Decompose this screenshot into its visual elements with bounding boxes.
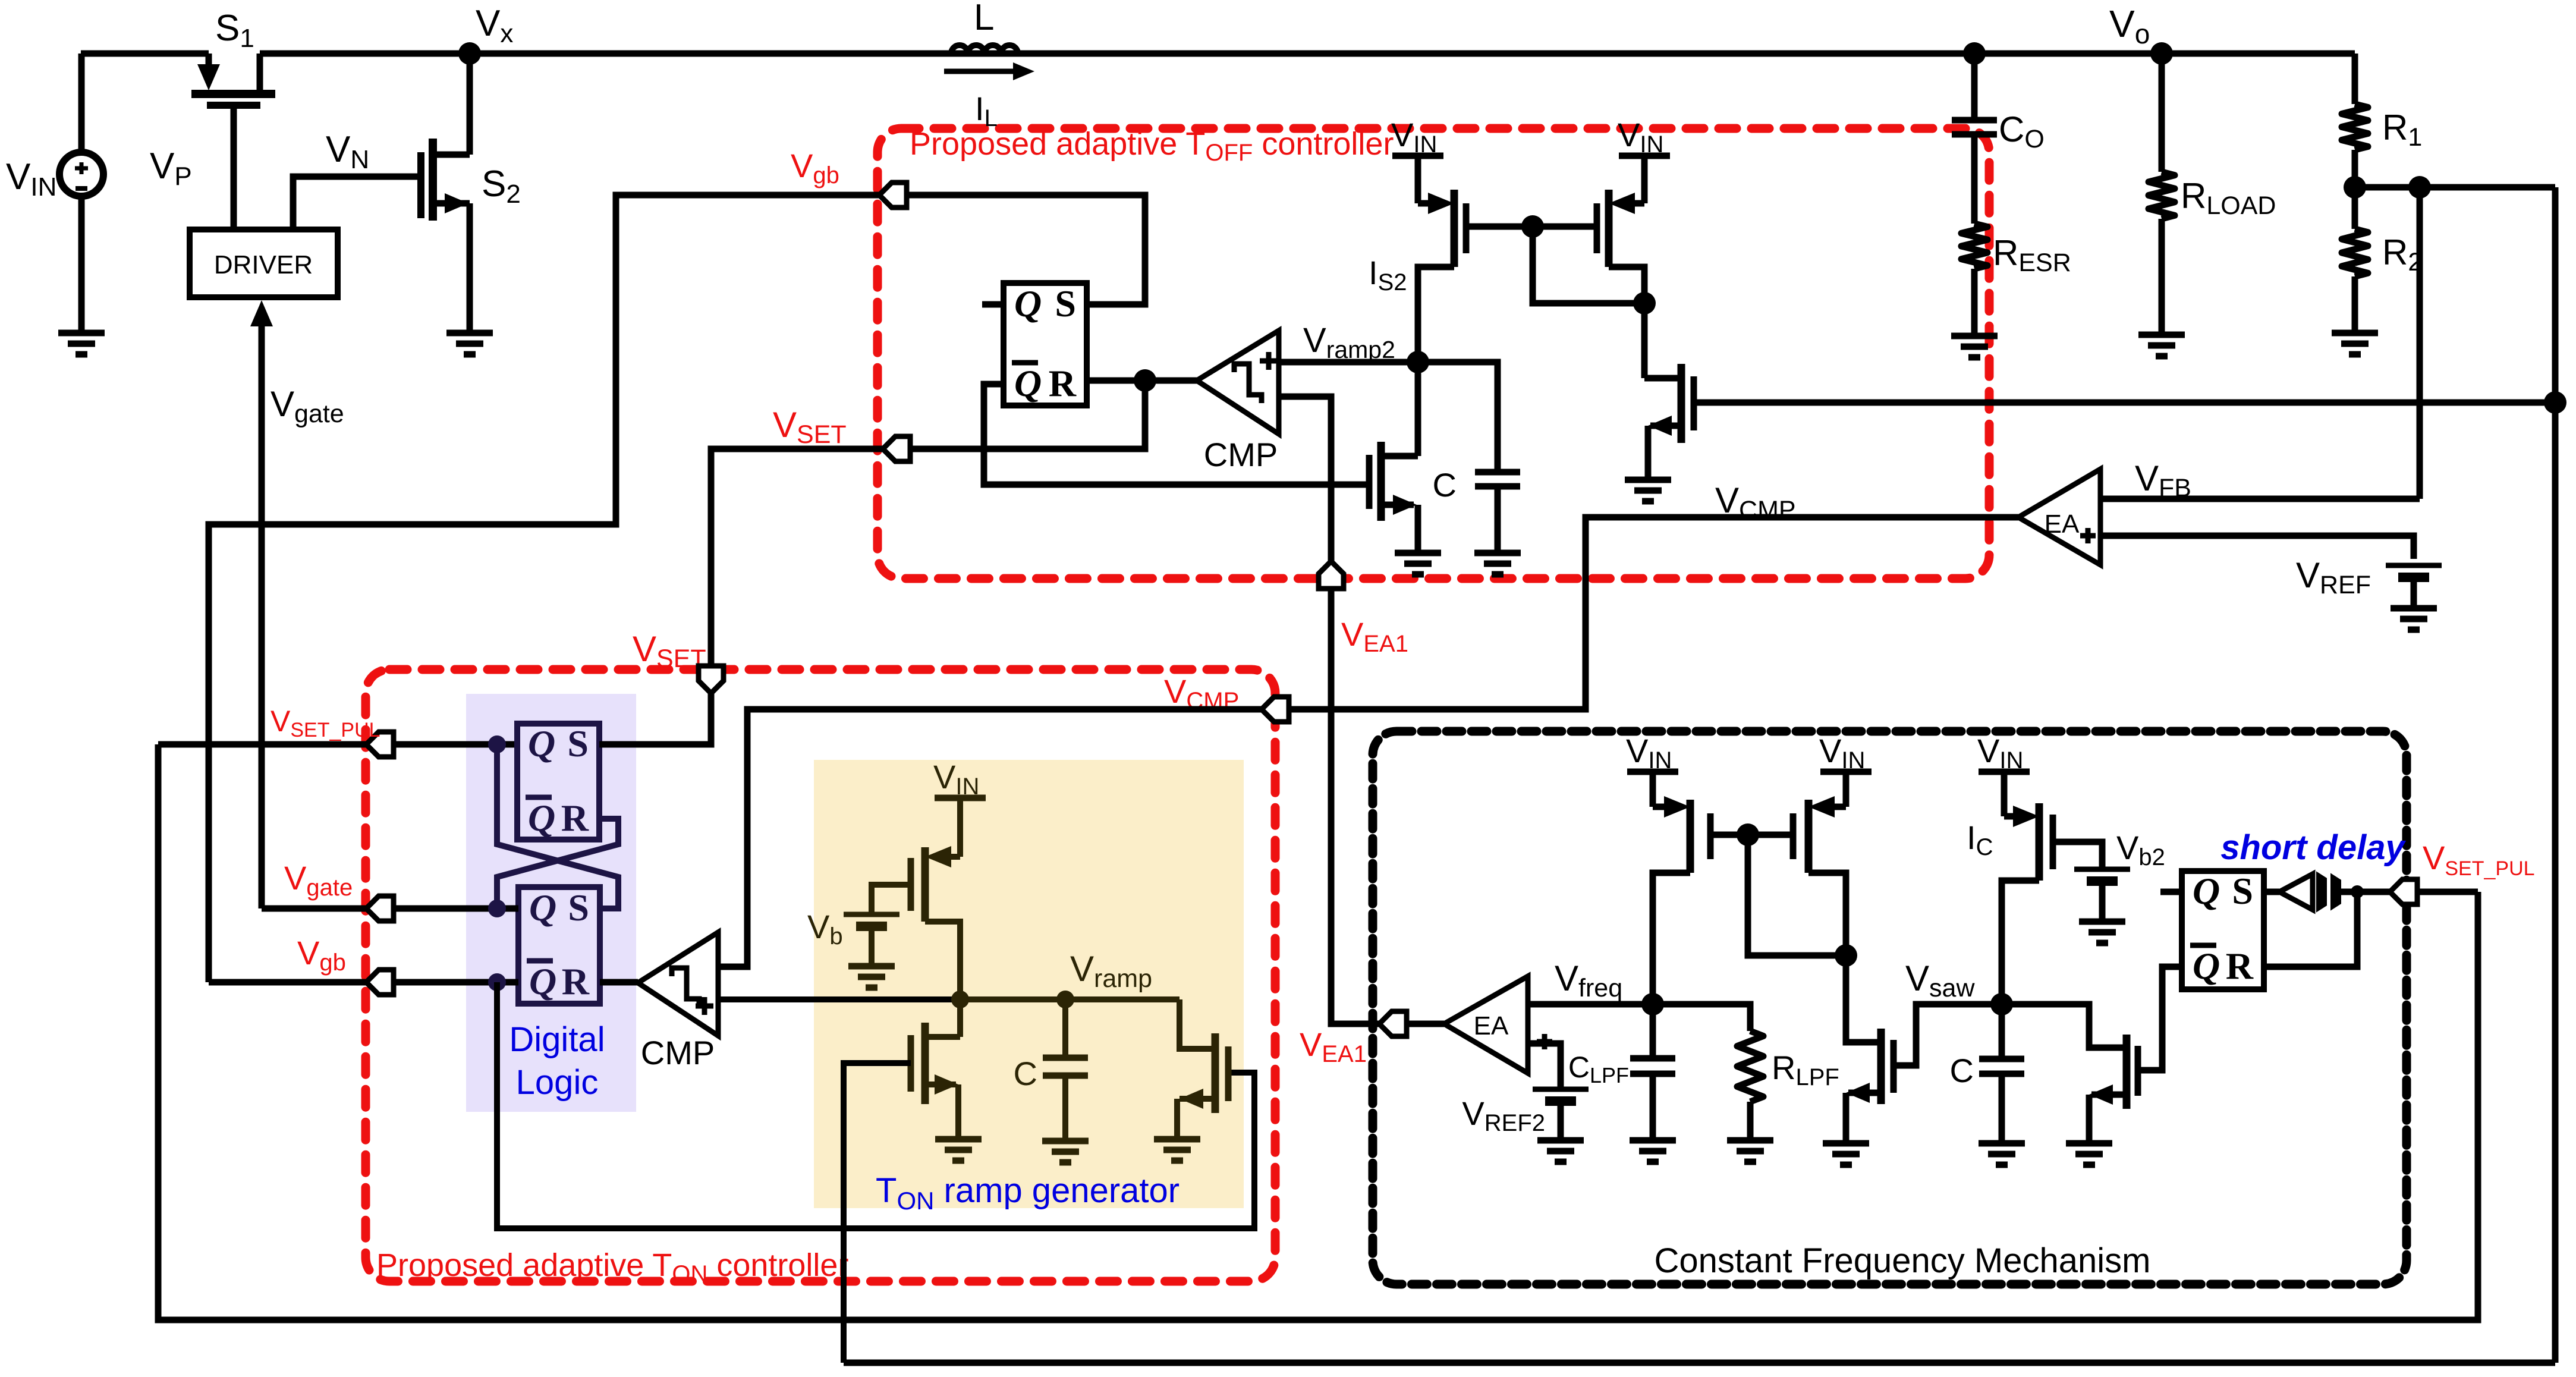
label S2 <box>482 164 521 209</box>
supply VIN bar CFM1 <box>1626 732 1678 774</box>
wire: Vfreq to RLPF <box>1653 1004 1750 1031</box>
label Co <box>1999 109 2045 153</box>
wire: M5 drain to Vramp2 <box>1415 362 1421 456</box>
wire: VSET to R node <box>909 381 1145 449</box>
label VSET red TON <box>633 629 706 673</box>
wire: S2 drain to Vx <box>467 54 473 155</box>
wire: feedback bottom wire <box>844 1360 2555 1366</box>
wire: Vsaw to cap C CFM <box>1999 1004 2005 1059</box>
wire VCMP: EA out to TON <box>1289 517 2018 709</box>
label: Constant Frequency Mechanism <box>1655 1241 2151 1280</box>
svg-text:Q: Q <box>528 722 555 765</box>
label VREF <box>2296 555 2371 599</box>
wire: CMP upper in to VCMP <box>718 709 1262 967</box>
wire: cap C to ground <box>1495 486 1501 553</box>
ground below M5 <box>1395 553 1441 574</box>
voltage source VIN circle <box>59 152 103 196</box>
ground below M6 <box>1625 480 1671 501</box>
node Qbar2 dot <box>488 973 506 991</box>
label VREF2 <box>1462 1095 1545 1136</box>
label VFB <box>2135 458 2191 502</box>
wire: N1 gate to bottom <box>844 1063 911 1363</box>
comparator CMP TOFF <box>1197 331 1279 434</box>
label VEA1 red CFM <box>1300 1026 1367 1067</box>
node Q2 dot <box>488 900 506 917</box>
capacitor C TOFF <box>1475 472 1520 486</box>
wire: VSET to TON box <box>711 449 883 667</box>
port Vgb TON <box>366 970 394 995</box>
wire: M5 source to ground <box>1415 505 1421 553</box>
transistor S2 NMOS <box>421 139 470 221</box>
label Vgate red <box>284 859 353 901</box>
label IC <box>1967 819 1993 860</box>
node Vx dot <box>458 42 481 65</box>
ground below RLOAD <box>2138 335 2185 356</box>
wire: Vgb routing to TOFF <box>209 195 879 982</box>
label Digital Logic <box>509 1020 605 1102</box>
wire VN: driver to S2 gate <box>293 177 421 229</box>
label IL <box>975 90 998 131</box>
wire VFB input <box>2100 496 2420 502</box>
node Vramp2 dot <box>1407 351 1429 373</box>
ground below N1 <box>935 1139 982 1161</box>
port VSET_PUL CFM <box>2390 879 2417 904</box>
svg-text:S: S <box>567 722 589 765</box>
wire: inductor to Vo rail <box>1018 51 2355 57</box>
port VSET_PUL TON <box>366 732 394 757</box>
supply VIN bar CFM2 <box>1819 732 1872 774</box>
transistor M6 NMOS TOFF out <box>1644 364 1694 443</box>
wire: RLOAD to ground <box>2159 219 2165 335</box>
wire: right mirror drain down <box>1641 303 1648 378</box>
label R2 <box>2382 232 2422 276</box>
wire: Vo rail corner down to R1 <box>2352 54 2358 104</box>
ground below Vb <box>848 966 895 988</box>
svg-text:R: R <box>2226 945 2254 987</box>
cross couple Q1 to S2 <box>497 744 618 908</box>
node CFM right drain dot <box>1835 944 1857 967</box>
node Vramp dot2 <box>1056 991 1074 1008</box>
label: Proposed adaptive TON controller <box>376 1247 848 1287</box>
svg-text:Q: Q <box>1014 282 1042 325</box>
ground below Vb2 <box>2079 922 2125 943</box>
wire: Vgb port to Qbar2 <box>394 979 518 986</box>
svg-text:R: R <box>1049 362 1077 404</box>
wire: S2 source to ground <box>467 203 473 333</box>
wire: EA2 Vfreq input <box>1528 1001 1653 1008</box>
ground below N2 <box>1154 1139 1200 1161</box>
svg-text:EA: EA <box>2045 510 2080 539</box>
wire: VFB tap down to EA <box>2417 187 2423 499</box>
ground below S2 <box>446 333 493 354</box>
wire: Vfreq to CLPF <box>1650 1004 1656 1058</box>
label Vfreq <box>1555 958 1622 1002</box>
wire: N3 source to ground <box>1843 1093 1850 1143</box>
node Vo dot <box>2150 42 2173 65</box>
ground below CLPF <box>1630 1140 1676 1162</box>
ground below VREF <box>2391 608 2437 630</box>
port VSET TON (down) <box>699 666 724 693</box>
wire: CFM mirror gates <box>1710 832 1793 838</box>
label RLPF <box>1772 1049 1839 1090</box>
wire: S1 drain to Vx to inductor <box>260 51 951 57</box>
wire: CFM diode connect <box>1748 835 1846 955</box>
label VEA1 red TOFF <box>1341 615 1408 657</box>
node mirror gate dot <box>1521 215 1544 238</box>
stub latch1 S input <box>599 741 711 748</box>
wire: Vramp2 to cap C <box>1418 362 1498 472</box>
label Vo <box>2109 2 2150 49</box>
red dashed box: Proposed adaptive TON controller <box>366 669 1275 1281</box>
transistor PMOS IS2 right <box>1597 156 1644 303</box>
svg-text:Q: Q <box>2193 945 2220 987</box>
node Q1 dot <box>488 735 506 753</box>
svg-text:DRIVER: DRIVER <box>214 250 313 279</box>
battery VREF <box>2386 565 2442 577</box>
supply VIN bar left (TOFF mirror) <box>1391 116 1443 158</box>
label Vramp2 <box>1303 321 1395 363</box>
red dashed box: Proposed adaptive TOFF controller <box>877 128 1989 579</box>
label VSET_PUL red right <box>2423 839 2535 880</box>
node VFB tap dot <box>2408 176 2431 199</box>
stub latch3 Q <box>2160 889 2182 895</box>
port VEA1 TOFF (up) <box>1319 561 1344 589</box>
wire: Vgb rail to port <box>209 979 366 986</box>
TON ramp generator highlight box <box>814 760 1244 1208</box>
error amp EA <box>2018 469 2100 565</box>
svg-text:Q: Q <box>1014 362 1042 404</box>
transistor P3 PMOS CFM <box>1653 772 1710 1004</box>
error amp EA2 CFM <box>1444 976 1552 1073</box>
wire: Co to RESR <box>1971 134 1978 224</box>
wire: P5 gate to Vb2 <box>2053 842 2102 867</box>
capacitor C CFM <box>1979 1059 2024 1074</box>
label RESR <box>1993 233 2071 277</box>
wire: Vgb port to latch S <box>907 195 1145 304</box>
wire: TOFF latch R row <box>1087 378 1197 384</box>
label Vsaw <box>1905 958 1975 1002</box>
ground below VREF2 <box>1537 1140 1584 1162</box>
port Vgb TOFF <box>879 183 907 208</box>
svg-text:S: S <box>568 886 589 929</box>
battery Vb <box>844 914 899 926</box>
wire: CMP+ to Vramp <box>718 996 960 1002</box>
wire: N4 source to ground <box>2086 1095 2093 1143</box>
port Vgate TON <box>366 896 394 921</box>
wire: P2 gate to Vb <box>872 885 911 913</box>
SR latch TOFF <box>1004 282 1087 405</box>
wire: Vsaw to N4 drain <box>2002 1004 2127 1048</box>
label VSET red <box>773 405 847 449</box>
node CFM mirror gate dot <box>1737 823 1759 846</box>
label short delay <box>2220 828 2406 867</box>
node delay feedback dot <box>2351 885 2364 898</box>
label IS2 <box>1369 254 1407 295</box>
svg-text:C: C <box>1014 1055 1037 1092</box>
wire: CMP+ input Vramp2 <box>1279 359 1418 366</box>
svg-text:Q: Q <box>529 960 556 1002</box>
label CMP TON <box>641 1034 715 1071</box>
transistor N1 NMOS TON <box>911 1023 960 1104</box>
wire: R1R2 to R2 <box>2352 187 2358 229</box>
node dot M6 gate right <box>2544 391 2566 414</box>
wire: Vgate port to Q2 <box>394 906 518 912</box>
port VEA1 CFM <box>1379 1011 1407 1036</box>
svg-text:Proposed adaptive TOFF contro: Proposed adaptive TOFF controller <box>910 126 1394 166</box>
SR latch3 CFM <box>2182 870 2264 989</box>
cross couple R1 to Q2 <box>497 819 618 908</box>
wire: C TON to ground <box>1062 1076 1068 1141</box>
wire: N3 gate to Vsaw <box>1894 1004 2002 1065</box>
wire: EA2 + input to VREF2 <box>1528 1043 1561 1087</box>
wire: VIN bottom to ground <box>78 196 85 333</box>
wire: right rail down <box>2552 187 2559 1363</box>
ground below R2 <box>2332 333 2378 354</box>
SR latch1 digital logic <box>517 722 599 840</box>
label R1 <box>2382 108 2422 152</box>
label: Proposed adaptive TOFF controller <box>910 126 1394 166</box>
wire VREF battery to ground <box>2411 577 2417 608</box>
capacitor CLPF <box>1630 1058 1675 1074</box>
label Vgb red TOFF <box>791 147 839 188</box>
inductor L <box>951 45 1018 54</box>
svg-text:Digital: Digital <box>509 1020 605 1059</box>
wire VREF input <box>2100 536 2414 559</box>
ground below C TON <box>1042 1141 1089 1162</box>
wire: diode connect <box>1533 227 1644 303</box>
ground below N3 <box>1823 1143 1869 1165</box>
SR latch2 digital logic <box>518 886 600 1004</box>
wire: N4 gate to latch3 Qbar <box>2138 967 2182 1070</box>
wire: P4 drain to N3 <box>1846 955 1881 1042</box>
svg-text:Proposed adaptive TON controll: Proposed adaptive TON controller <box>376 1247 848 1287</box>
svg-text:Logic: Logic <box>516 1063 599 1102</box>
node dot above Co <box>1963 42 1986 65</box>
label RLOAD <box>2181 176 2276 220</box>
ground below cap C <box>1474 553 1521 574</box>
resistor RLOAD <box>2149 172 2175 219</box>
ground below N4 <box>2066 1143 2112 1165</box>
transistor N3 NMOS CFM <box>1846 1029 1894 1104</box>
wire: M6 source to ground <box>1645 426 1652 480</box>
label C TON <box>1014 1055 1037 1092</box>
wire: Vramp to N2 drain <box>1180 999 1215 1049</box>
wire: CMP- input to VEA1 <box>1279 397 1331 561</box>
wire: VEA1 port to EA2 <box>1407 1021 1444 1027</box>
svg-text:EA: EA <box>1474 1011 1509 1040</box>
label C TOFF <box>1433 466 1457 504</box>
supply VIN bar CFM3 <box>1977 732 2030 774</box>
label VSET_PUL red left <box>271 705 380 741</box>
wire: Vo to RLOAD <box>2159 54 2165 172</box>
wire: VIN top to rail <box>78 54 85 153</box>
svg-text:short delay: short delay <box>2220 828 2406 867</box>
wire: divider node to right rail <box>2355 184 2555 191</box>
wire: CLPF to ground <box>1650 1074 1656 1140</box>
wire: VREF2 to ground <box>1558 1101 1564 1140</box>
wire: N1 source to ground <box>955 1084 961 1139</box>
node Vsaw dot <box>1990 993 2013 1016</box>
label CLPF <box>1568 1051 1629 1087</box>
transistor PMOS IS2 left <box>1418 156 1466 362</box>
svg-text:CMP: CMP <box>641 1034 715 1071</box>
wire Vgate with arrow into driver <box>250 300 273 908</box>
transistor N4 NMOS CFM <box>2089 1035 2138 1109</box>
stub Q TOFF latch <box>982 301 1004 308</box>
label VCMP black <box>1715 480 1796 524</box>
arrow IL inductor current <box>944 62 1034 80</box>
comparator CMP TON <box>638 932 718 1036</box>
wire: latch3 R feedback <box>2264 892 2357 967</box>
node dot on R line <box>1134 369 1156 392</box>
wire: Vb2 to ground <box>2099 881 2106 922</box>
svg-text:C: C <box>1950 1052 1974 1089</box>
wire: VEA1 down to CFM <box>1331 589 1379 1024</box>
resistor R2 <box>2342 229 2368 276</box>
transistor P5 PMOS IC <box>2002 772 2053 1004</box>
wire: VSET_PUL port to corner <box>2417 889 2478 895</box>
svg-text:S: S <box>1055 282 1076 325</box>
wire: RESR to ground <box>1971 269 1978 336</box>
svg-text:R: R <box>561 797 589 839</box>
supply VIN bar TON <box>933 758 986 800</box>
svg-text:R: R <box>562 960 590 1002</box>
wire: N1 drain up <box>957 999 963 1037</box>
wire: VSET_PUL left rail to port <box>158 741 366 748</box>
node Vfreq dot <box>1641 993 1664 1016</box>
wire: VSET port into latch1 S <box>599 693 711 744</box>
wire: Vb to ground <box>869 926 875 966</box>
port VSET TOFF <box>883 436 910 461</box>
ground below RLPF <box>1727 1140 1773 1162</box>
node R1R2 junction dot <box>2344 176 2366 199</box>
wire: N2 source to ground <box>1174 1099 1180 1139</box>
ground below C CFM <box>1979 1143 2025 1165</box>
driver box <box>190 229 338 297</box>
battery Vb2 <box>2074 869 2130 881</box>
label VIN source <box>6 156 56 202</box>
svg-text:Q: Q <box>528 797 555 839</box>
wire: latch2 R to CMP out <box>600 979 638 986</box>
delay buffers <box>2264 873 2390 910</box>
node Vramp dot1 <box>951 991 969 1008</box>
resistor RLPF <box>1737 1031 1763 1102</box>
transistor S1 PMOS <box>191 54 275 229</box>
svg-text:Constant Frequency Mechanism: Constant Frequency Mechanism <box>1655 1241 2151 1280</box>
wire: M6 gate to feedback node <box>1694 400 2555 406</box>
svg-text:Q: Q <box>529 886 556 929</box>
wire: C CFM to ground <box>1999 1074 2005 1143</box>
label Vx <box>476 3 513 48</box>
ground below RESR <box>1951 336 1998 357</box>
label S1 <box>215 8 254 53</box>
svg-text:C: C <box>1433 466 1457 504</box>
wire: VSET_PUL bottom return <box>158 744 2478 1320</box>
label C CFM <box>1950 1052 1974 1089</box>
supply VIN bar right (TOFF mirror) <box>1618 116 1670 158</box>
label Vb <box>807 908 843 950</box>
label TON ramp generator <box>876 1171 1180 1215</box>
wire: TOFF Qbar loop <box>984 384 1369 485</box>
wire: R2 to ground <box>2352 276 2358 333</box>
black dashed box: Constant Frequency Mechanism <box>1373 731 2407 1284</box>
port VCMP TON <box>1262 697 1289 722</box>
ground below VIN <box>58 333 105 354</box>
label Vb2 <box>2116 829 2165 870</box>
wire: RLPF to ground <box>1747 1102 1754 1140</box>
wire: Vramp node wire <box>960 996 1180 1002</box>
svg-text:L: L <box>974 0 994 38</box>
wire: VSET_PUL port to latch1 Q <box>394 741 517 748</box>
resistor R1 <box>2342 104 2368 150</box>
transistor P2 PMOS TON <box>911 798 960 999</box>
wire: R1 to R1R2 node <box>2352 150 2358 187</box>
digital logic highlight box <box>466 694 636 1112</box>
svg-text:Q: Q <box>2193 870 2220 912</box>
wire: mirror gates <box>1466 224 1597 230</box>
wire: VIN to S1 source (top rail) <box>81 51 209 57</box>
wire: Qbar2 down to N2 gate <box>497 982 1254 1228</box>
svg-text:CMP: CMP <box>1204 436 1278 473</box>
label Vgb red TON <box>297 934 346 976</box>
wire: Vgate rail to port <box>262 906 366 912</box>
transistor M5 NMOS TOFF <box>1369 442 1418 521</box>
transistor N2 NMOS TON right <box>1180 1033 1228 1113</box>
label Vramp <box>1070 949 1152 993</box>
transistor P4 PMOS CFM <box>1793 772 1846 955</box>
node drain dot right mirror <box>1633 292 1656 315</box>
battery VREF2 <box>1533 1089 1589 1101</box>
label CMP TOFF <box>1204 436 1278 473</box>
label L <box>974 0 994 38</box>
label Vgate black <box>271 384 344 428</box>
label VP <box>150 146 192 191</box>
label VN <box>326 129 369 174</box>
capacitor C TON <box>1043 999 1088 1076</box>
label VCMP red <box>1164 672 1239 714</box>
capacitor Co <box>1952 54 1997 134</box>
resistor RESR <box>1961 224 1987 269</box>
svg-text:S: S <box>2232 870 2253 912</box>
